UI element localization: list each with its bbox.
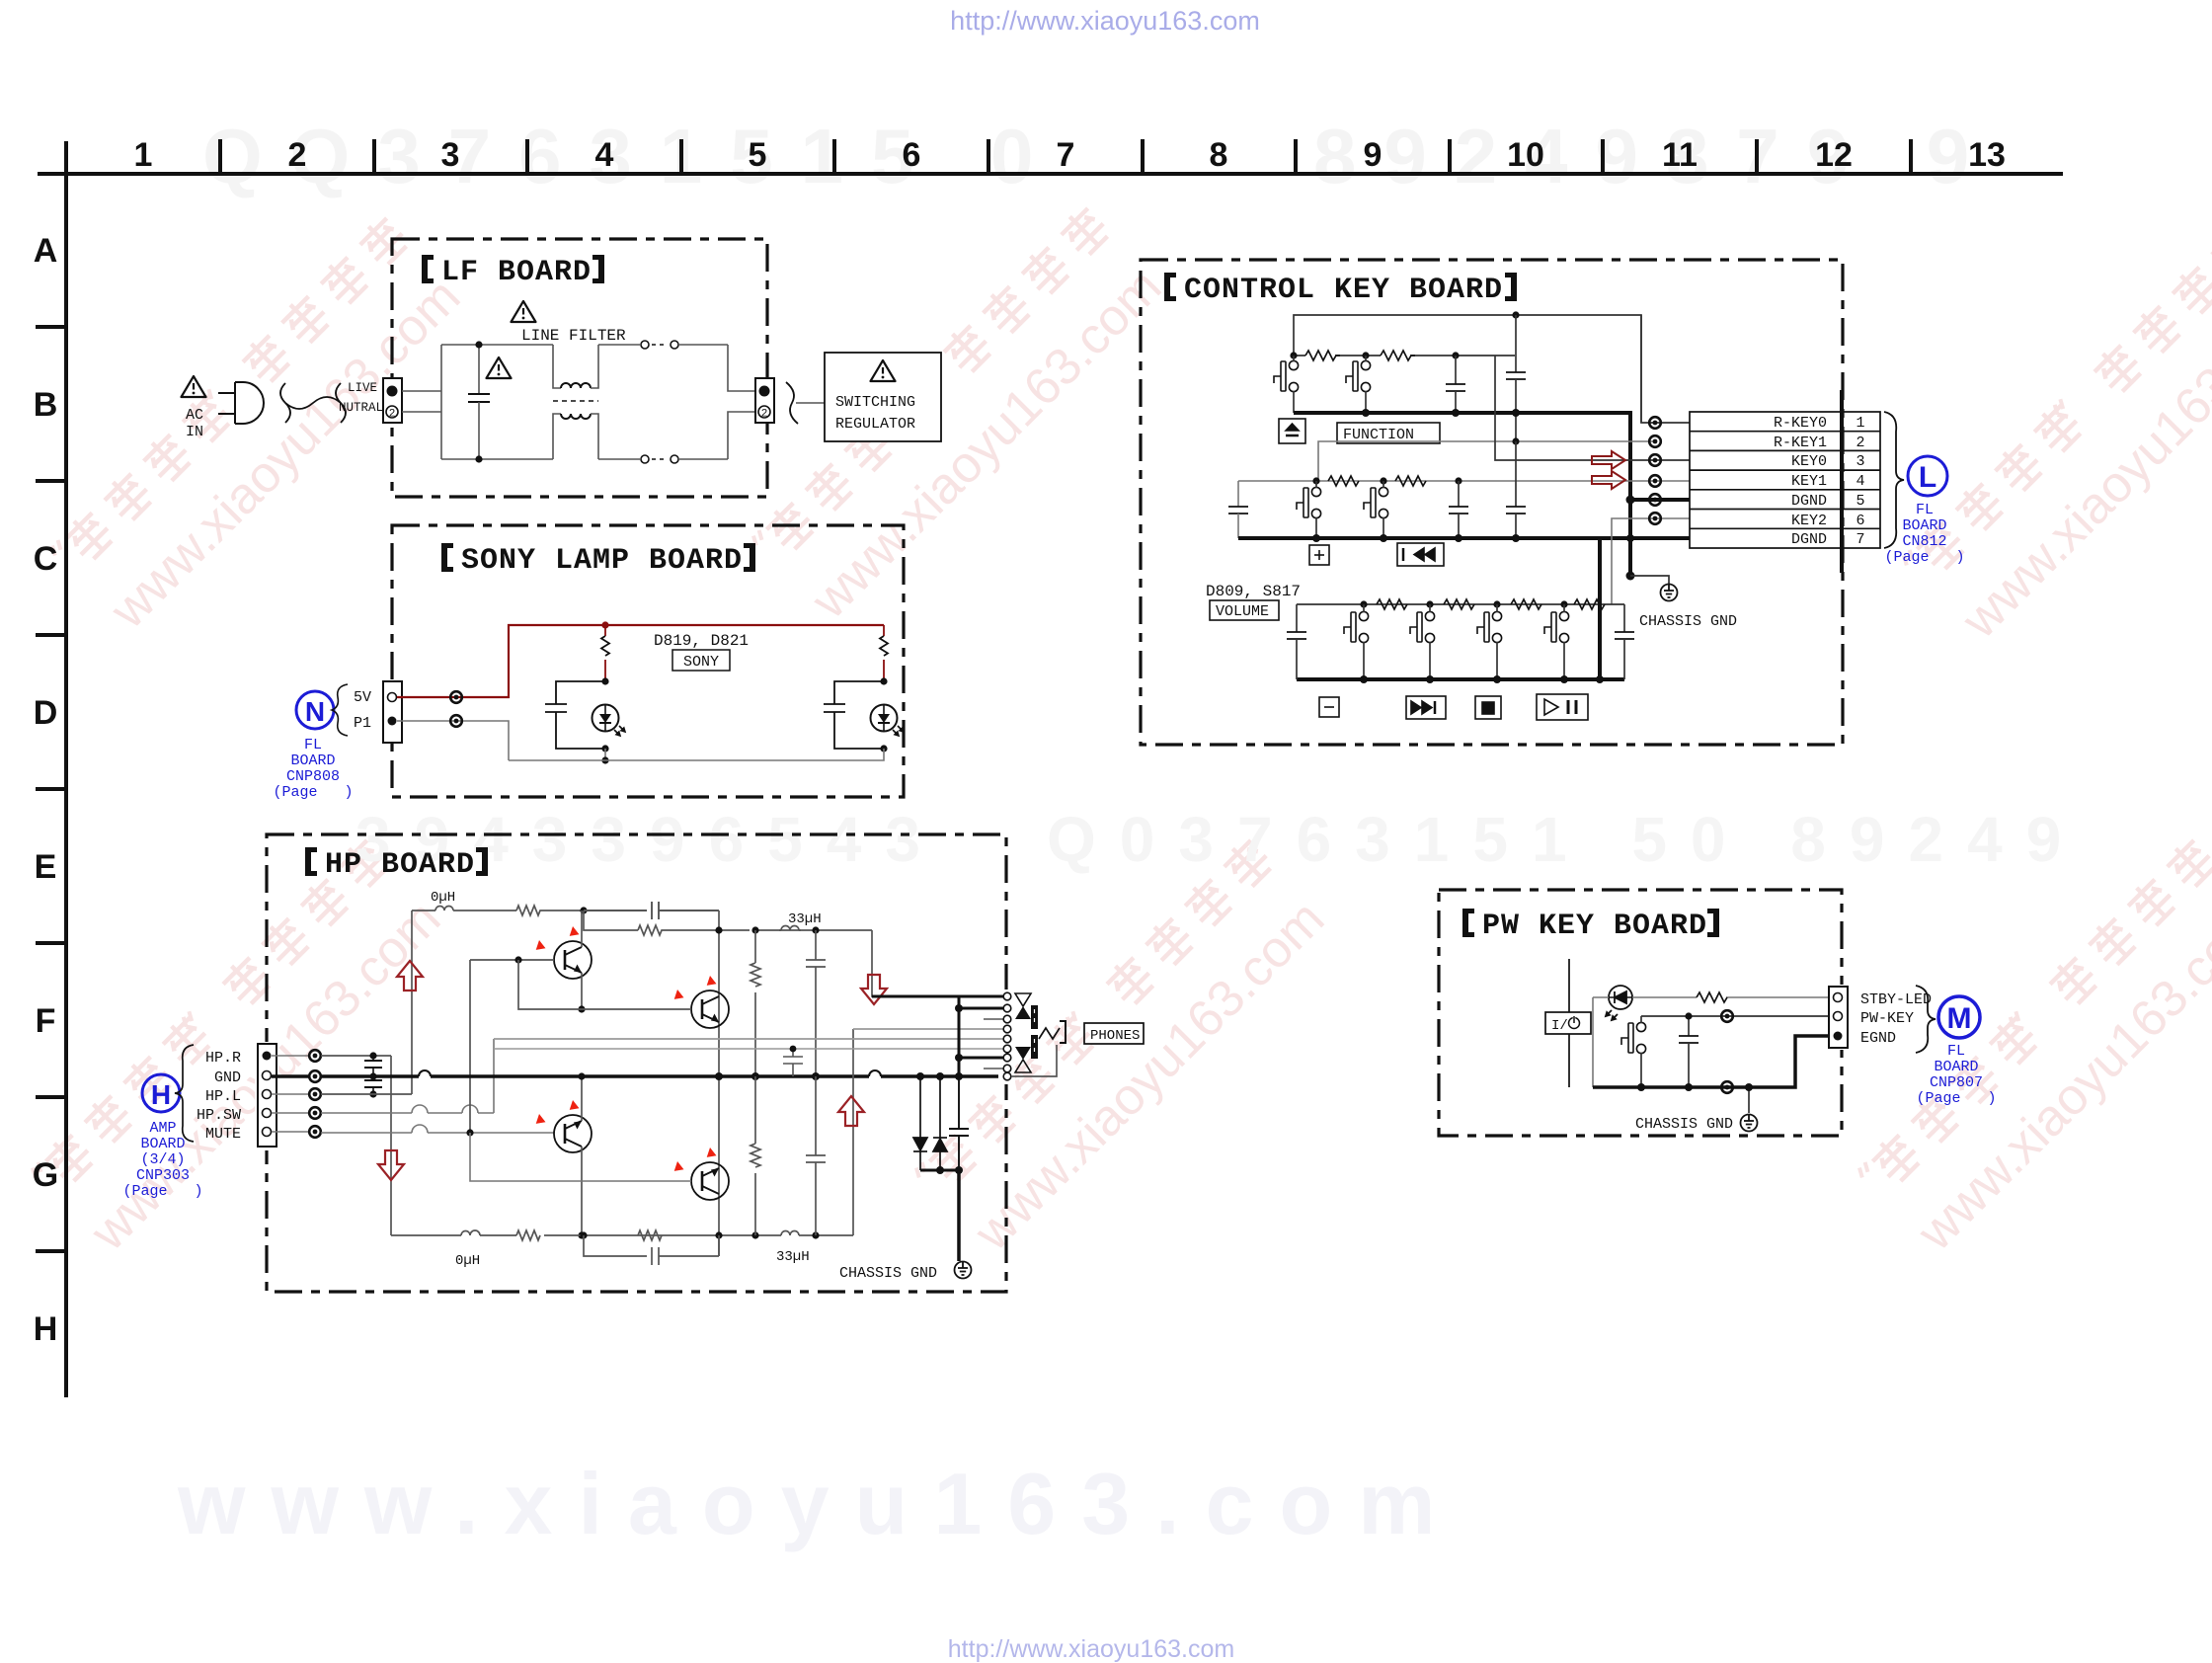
- wire neutral: [402, 411, 441, 413]
- jack tip spring: [1039, 1028, 1060, 1039]
- Q1 red mark: [533, 940, 547, 954]
- + key icon: [1309, 545, 1329, 565]
- chassis drop (thick): [1626, 572, 1635, 581]
- svg-text:(Page ): (Page ): [1916, 1090, 1996, 1107]
- eject key icon: [1279, 419, 1305, 443]
- volume bus junction dots: [1360, 675, 1368, 683]
- chassis gnd stub: [1630, 576, 1669, 584]
- STBY-LED wire: [1593, 996, 1834, 998]
- svg-text:33µH: 33µH: [776, 1249, 810, 1265]
- detect cap: [783, 1049, 803, 1076]
- DGND5 wire (thick): [1630, 498, 1690, 502]
- ruler tick marks (top): [220, 139, 1911, 174]
- svg-text:2: 2: [389, 409, 396, 421]
- svg-text:89249879 9: 89249879 9: [1313, 113, 1997, 199]
- svg-text:HP.SW: HP.SW: [197, 1107, 241, 1124]
- svg-text:http://www.xiaoyu163.com: http://www.xiaoyu163.com: [948, 1635, 1234, 1663]
- junction dot LED2 top: [880, 677, 887, 684]
- svg-text:(Page ): (Page ): [273, 784, 353, 801]
- svg-text:REGULATOR: REGULATOR: [835, 416, 915, 433]
- svg-text:LF BOARD: LF BOARD: [441, 256, 592, 289]
- svg-text:I/: I/: [1551, 1018, 1568, 1034]
- svg-text:2: 2: [288, 136, 307, 174]
- resistor R stby: [1697, 992, 1727, 1002]
- SONY LAMP BOARD title: [441, 543, 755, 578]
- svg-text:D809, S817: D809, S817: [1206, 583, 1301, 600]
- wire beads at connector: [1649, 417, 1661, 429]
- 5V red wire: [397, 625, 884, 697]
- filter output mesh with plug-break: [598, 345, 755, 459]
- capacitor C1 rowA: [1446, 356, 1465, 413]
- volume wire junction dots: [1360, 600, 1367, 607]
- resistor R2 bottom rail: [638, 1230, 662, 1240]
- connector L circle: [1908, 456, 1947, 496]
- svg-text:A: A: [34, 232, 58, 270]
- wire live: [402, 390, 441, 392]
- earth symbol HP board: [955, 1262, 972, 1279]
- SONY boxed label: [672, 650, 730, 671]
- svg-text:C: C: [34, 540, 58, 578]
- phones jack feed (thick): [872, 995, 1003, 998]
- LED D821: [871, 705, 905, 737]
- svg-text:E: E: [35, 848, 57, 886]
- signal arrow KEY0: [1592, 451, 1625, 469]
- HP BOARD dashed enclosure: [267, 834, 1006, 1292]
- CONTROL KEY BOARD title: [1164, 273, 1517, 307]
- bus A junction dots: [1362, 409, 1370, 417]
- ruler row letters A-H: [33, 232, 58, 1348]
- svg-text:www.xiaoyu163.com: www.xiaoyu163.com: [177, 1455, 1461, 1552]
- flow arrow down (R ch): [378, 1150, 404, 1180]
- volume bus to DGND (thick): [1598, 538, 1602, 679]
- KEY2 wire: [1612, 518, 1690, 604]
- LF BOARD dashed enclosure: [392, 239, 767, 497]
- svg-text:AC: AC: [186, 407, 203, 424]
- warning triangle above LINE FILTER: [512, 301, 536, 322]
- resistor R (rowB left): [1328, 476, 1359, 486]
- Q4 red mark 2: [704, 1148, 718, 1161]
- protection diode D1: [913, 1076, 927, 1170]
- connector CNP808: [383, 681, 402, 743]
- svg-text:KEY0: KEY0: [1791, 453, 1827, 470]
- resistor R (rowA right): [1381, 351, 1415, 360]
- brace at CN812: [1884, 412, 1904, 548]
- FL BOARD CN812 label: [1884, 502, 1964, 566]
- svg-text:http://www.xiaoyu163.com: http://www.xiaoyu163.com: [950, 6, 1260, 36]
- svg-text:(Page ): (Page ): [122, 1183, 202, 1200]
- Q3 emitter lead up: [581, 1076, 583, 1121]
- Q1 emitter lead: [581, 973, 583, 1009]
- resistor R (rowA left): [1305, 351, 1340, 360]
- svg-text:5: 5: [749, 136, 767, 174]
- common mode choke L: [553, 345, 598, 459]
- resistor R (volume 4): [1574, 599, 1605, 609]
- svg-text:DGND: DGND: [1791, 531, 1827, 548]
- resistor R bottom rail: [516, 1230, 540, 1240]
- svg-text:CNP807: CNP807: [1930, 1074, 1983, 1091]
- connector (LF out): [755, 378, 774, 423]
- brace at CNP807: [1916, 986, 1935, 1053]
- svg-text:7: 7: [1057, 136, 1075, 174]
- AMP BOARD CNP303 label: [122, 1120, 202, 1200]
- power key I/O boxed label: [1545, 1012, 1591, 1034]
- bead on 5V wire: [450, 691, 462, 703]
- inductor 33uH top: [779, 926, 801, 931]
- capacitor C rowB left: [1228, 481, 1248, 538]
- svg-text:5: 5: [1856, 493, 1864, 510]
- switch row B wire (KEY1): [1238, 480, 1690, 482]
- Q2 red mark: [671, 990, 685, 1003]
- svg-text:CNP808: CNP808: [286, 768, 340, 785]
- svg-text:D: D: [34, 694, 58, 732]
- jack contacts: [1003, 992, 1011, 1080]
- svg-text:BOARD: BOARD: [1902, 517, 1946, 534]
- jack switch lower: [1015, 1047, 1031, 1060]
- Q2 base wire: [518, 960, 691, 1009]
- Q2 red mark 2: [704, 976, 718, 990]
- LF BOARD title: [422, 255, 604, 289]
- svg-text:CONTROL KEY BOARD: CONTROL KEY BOARD: [1184, 274, 1503, 307]
- FUNCTION boxed label: [1337, 423, 1440, 443]
- svg-text:DGND: DGND: [1791, 493, 1827, 510]
- transistor Q3: [554, 1115, 592, 1152]
- svg-text:NUTRAL: NUTRAL: [339, 401, 383, 415]
- warning triangle inside filter: [487, 357, 512, 378]
- connector N circle: [296, 691, 334, 729]
- junction dot on C2 line row2: [1512, 437, 1519, 444]
- svg-text:N: N: [305, 696, 325, 727]
- svg-text:13: 13: [1968, 136, 2006, 174]
- FL BOARD CNP807 label: [1916, 1043, 1996, 1107]
- bead on P1 wire: [450, 715, 462, 727]
- svg-text:0µH: 0µH: [431, 890, 455, 906]
- pin stub wires: [272, 1056, 310, 1132]
- svg-text:P1: P1: [354, 715, 371, 732]
- return drop left: [604, 749, 606, 760]
- phones sw wire: [494, 1048, 1003, 1050]
- connector CNP807: [1829, 987, 1848, 1048]
- svg-text:33µH: 33µH: [788, 911, 822, 927]
- signal arrow KEY1: [1592, 471, 1625, 489]
- capacitor C volume left: [1287, 604, 1306, 679]
- jack pin3 stub: [984, 1018, 1003, 1020]
- junction dot bottom of C: [475, 455, 482, 462]
- line filter input mesh: [441, 345, 553, 459]
- svg-text:3: 3: [1856, 453, 1864, 470]
- bead on EGND: [1721, 1081, 1733, 1093]
- svg-text:AMP: AMP: [149, 1120, 176, 1137]
- watermark layer: [47, 213, 474, 640]
- svg-text:CHASSIS GND: CHASSIS GND: [839, 1265, 946, 1282]
- Q1 base wire: [470, 959, 554, 961]
- junction dot LED2 bottom: [880, 745, 887, 752]
- bead on PW-KEY: [1721, 1010, 1733, 1022]
- MUTE wire: [321, 1132, 554, 1134]
- svg-text:10: 10: [1507, 136, 1544, 174]
- svg-text:CN812: CN812: [1902, 533, 1946, 550]
- svg-text:4: 4: [595, 136, 614, 174]
- junction dot LED bottom: [601, 745, 608, 752]
- series capacitor top rail: [584, 902, 719, 919]
- svg-text:KEY1: KEY1: [1791, 473, 1827, 490]
- svg-text:CNP303: CNP303: [136, 1167, 190, 1184]
- svg-text:G: G: [33, 1156, 58, 1194]
- ruler: top horizontal scale line: [38, 172, 2063, 176]
- push switch S (eject): [1274, 360, 1299, 391]
- P1 return wire: [397, 721, 509, 760]
- transistor Q1: [554, 941, 592, 979]
- push switch S (+): [1297, 487, 1321, 517]
- connector board-edge line (thick): [1840, 390, 1844, 573]
- inductor 0uH top: [412, 907, 516, 911]
- jack pin8 stub: [984, 1068, 1003, 1069]
- resistor R (volume 3): [1511, 599, 1541, 609]
- power key actuator line: [1568, 959, 1570, 1087]
- volume ground bus (thick): [1297, 677, 1624, 681]
- wire beads: [309, 1050, 321, 1062]
- svg-text:5V: 5V: [354, 689, 371, 706]
- svg-text:D819, D821: D819, D821: [654, 632, 749, 650]
- svg-text:3: 3: [441, 136, 460, 174]
- flow arrow up (L ch): [397, 961, 423, 990]
- ground return wire: [509, 749, 884, 760]
- HP.L wire to driver: [321, 911, 412, 1094]
- bias resistor vertical: [750, 930, 760, 1076]
- capacitor C rowB mid: [1449, 481, 1468, 538]
- Q3 base wire: [466, 1129, 473, 1136]
- connector M circle: [1938, 996, 1980, 1038]
- capacitor C (across line): [468, 345, 490, 459]
- svg-text:GND: GND: [214, 1069, 241, 1086]
- PHONES boxed label: [1084, 1023, 1144, 1044]
- push switch S (volume 3): [1477, 611, 1502, 642]
- SWITCHING REGULATOR block: [825, 353, 941, 441]
- HP.R wire to output stage: [321, 1056, 391, 1235]
- svg-text:12: 12: [1815, 136, 1853, 174]
- connector CNP (LF in): [383, 378, 402, 423]
- svg-text:FL: FL: [1916, 502, 1934, 518]
- svg-text:CHASSIS GND: CHASSIS GND: [1639, 613, 1737, 630]
- HP.SW wire: [321, 1039, 494, 1113]
- svg-text:L: L: [1919, 461, 1936, 494]
- Q4 base wire: [470, 1133, 691, 1181]
- push switch S (function): [1346, 360, 1371, 391]
- svg-text:BOARD: BOARD: [1934, 1059, 1978, 1075]
- phones L signal wire: [853, 1028, 1003, 1030]
- svg-text:R-KEY1: R-KEY1: [1774, 435, 1827, 451]
- junction dot top wire: [1512, 311, 1519, 318]
- jack barrel: [1060, 1021, 1066, 1043]
- break contacts bottom: [641, 455, 649, 463]
- jack switch upper: [1015, 993, 1031, 1006]
- jack contact bar lower: [1031, 1035, 1038, 1059]
- svg-text:EGND: EGND: [1860, 1030, 1896, 1047]
- junction dot 5V rail: [601, 621, 608, 628]
- capacitor (right lamp): [824, 681, 884, 749]
- svg-text:QQ37631515 0: QQ37631515 0: [202, 113, 1061, 199]
- brace at H: [175, 1045, 194, 1142]
- capacitor C2 lower plates: [1506, 441, 1526, 538]
- jack sleeve return: [1011, 1045, 1057, 1076]
- svg-text:MUTE: MUTE: [205, 1126, 241, 1143]
- connector CNP303: [258, 1044, 276, 1147]
- earth symbol control board: [1661, 585, 1678, 601]
- capacitor C volume right: [1615, 604, 1634, 679]
- svg-text:2: 2: [761, 409, 768, 421]
- svg-text:SWITCHING: SWITCHING: [835, 394, 915, 411]
- svg-text:1: 1: [1856, 415, 1864, 432]
- svg-text:LINE FILTER: LINE FILTER: [521, 327, 626, 345]
- svg-text:11: 11: [1662, 136, 1698, 174]
- svg-text:LIVE: LIVE: [348, 381, 377, 395]
- svg-text:FL: FL: [304, 737, 322, 753]
- svg-text:6: 6: [903, 136, 921, 174]
- rowB junction dots: [1312, 477, 1319, 484]
- svg-text:HP BOARD: HP BOARD: [325, 848, 475, 882]
- push switch S (power): [1621, 1022, 1646, 1053]
- output rail lower: [391, 1029, 853, 1235]
- debounce capacitor: [1679, 1016, 1698, 1087]
- wire to regulator: [796, 402, 825, 404]
- PW-KEY wire: [1641, 1015, 1834, 1017]
- standby LED: [1606, 986, 1632, 1020]
- Q1 base feed from HP.SW: [469, 960, 471, 1133]
- Q3 red mark: [533, 1114, 547, 1128]
- AC plug symbol: [218, 382, 264, 424]
- push switch S (volume 2): [1410, 611, 1435, 642]
- Q3 red mark 2: [567, 1100, 581, 1114]
- ruler column numbers 1-13: [134, 136, 2006, 174]
- EGND bus (thick): [1593, 1036, 1834, 1087]
- CONTROL KEY BOARD dashed enclosure: [1141, 260, 1843, 745]
- R-KEY0 wire from top: [1641, 315, 1690, 423]
- jack pin7 stub: [959, 1057, 1003, 1060]
- svg-text:1: 1: [134, 136, 153, 174]
- driver rail: [584, 911, 965, 996]
- svg-text:9: 9: [1364, 136, 1382, 174]
- PW KEY BOARD title: [1462, 909, 1719, 943]
- resistor R (right lamp): [880, 625, 888, 681]
- earth symbol PW board: [1741, 1115, 1758, 1132]
- ruler tick marks (left): [36, 327, 66, 1251]
- jack contact bar upper: [1031, 1005, 1038, 1029]
- phones detect wire: [494, 1038, 1003, 1040]
- svg-text:R-KEY0: R-KEY0: [1774, 415, 1827, 432]
- filter capacitor vertical lower: [806, 1076, 826, 1235]
- push switch S (volume 1): [1344, 611, 1369, 642]
- stop key icon: [1475, 696, 1501, 719]
- transistor Q4: [691, 1162, 729, 1200]
- switch row A wire: [1294, 355, 1515, 356]
- svg-text:PHONES: PHONES: [1090, 1028, 1140, 1044]
- connector H circle: [142, 1074, 180, 1112]
- break contacts top: [641, 341, 649, 349]
- VOLUME boxed label: [1210, 600, 1279, 620]
- push switch S (prev): [1364, 487, 1388, 517]
- svg-text:4: 4: [1856, 473, 1864, 490]
- svg-text:M: M: [1947, 1002, 1972, 1035]
- GND bus junction dots: [715, 1072, 723, 1080]
- flow arrow up (feedback): [838, 1096, 864, 1126]
- hop on GND bus left: [419, 1070, 431, 1076]
- svg-text:BOARD: BOARD: [290, 752, 335, 769]
- ruler: left vertical scale line: [64, 141, 68, 1397]
- svg-text:FL: FL: [1947, 1043, 1965, 1060]
- ff key icon: [1406, 696, 1446, 719]
- R-KEY1 branch wire: [1318, 441, 1655, 481]
- feedback rail lower: [584, 1235, 719, 1265]
- resistor R top rail: [516, 906, 584, 915]
- flow arrow down (to phones R): [861, 975, 887, 1004]
- transistor Q2: [691, 990, 729, 1028]
- HP BOARD title: [305, 847, 488, 882]
- svg-text:H: H: [151, 1079, 171, 1110]
- protection diode D2: [933, 1076, 947, 1170]
- bias resistor vertical lower: [750, 1076, 760, 1235]
- svg-text:0µH: 0µH: [455, 1253, 480, 1269]
- Q1 collector lead: [581, 911, 583, 947]
- resistor R (rowB right): [1395, 476, 1426, 486]
- coupling capacitor pair at input: [364, 1056, 382, 1094]
- jack pin2 stub: [959, 1007, 1003, 1010]
- top bias wire: [1294, 315, 1641, 423]
- PW KEY BOARD dashed enclosure: [1439, 890, 1842, 1136]
- resistor R (volume 1): [1377, 599, 1407, 609]
- svg-text:SONY LAMP BOARD: SONY LAMP BOARD: [461, 544, 743, 578]
- FL BOARD CNP808 label: [273, 737, 353, 801]
- push switch S (volume 4): [1544, 611, 1569, 642]
- svg-text:Q03763151 50 89249: Q03763151 50 89249: [1047, 804, 2085, 875]
- LED return drop: [1592, 997, 1594, 1087]
- inductor 0uH bottom: [461, 1230, 480, 1235]
- filter capacitor vertical: [806, 930, 826, 1076]
- svg-text:F: F: [36, 1002, 56, 1040]
- chassis drop (thick): [957, 1170, 961, 1261]
- AC cord squiggle: [280, 383, 346, 423]
- brace at N: [332, 684, 348, 736]
- SONY LAMP BOARD dashed enclosure: [392, 525, 904, 797]
- svg-text:(3/4): (3/4): [140, 1151, 185, 1168]
- svg-text:KEY2: KEY2: [1791, 513, 1827, 529]
- inductor 33uH bottom: [781, 1231, 799, 1236]
- brace to switching regulator: [786, 382, 798, 424]
- svg-text:(Page ): (Page ): [1884, 549, 1964, 566]
- volume row wire: [1297, 603, 1624, 605]
- resistor R (left lamp): [601, 625, 609, 681]
- Q4 red mark: [671, 1161, 685, 1175]
- svg-text:CHASSIS GND: CHASSIS GND: [1635, 1116, 1733, 1133]
- svg-text:H: H: [34, 1310, 58, 1348]
- svg-text:VOLUME: VOLUME: [1216, 603, 1269, 620]
- svg-text:PW-KEY: PW-KEY: [1860, 1010, 1914, 1027]
- snubber capacitor: [949, 1076, 969, 1170]
- junction dot top of C: [475, 341, 482, 348]
- junction dots rowA: [1290, 352, 1297, 358]
- svg-text:8: 8: [1210, 136, 1228, 174]
- play/pause key icon: [1537, 694, 1588, 720]
- svg-text:HP.L: HP.L: [205, 1088, 241, 1105]
- jack common bus: [958, 996, 961, 1076]
- svg-text:6: 6: [1856, 513, 1864, 529]
- svg-text:BOARD: BOARD: [140, 1136, 185, 1152]
- capacitor (left lamp): [545, 681, 605, 749]
- svg-text:SONY: SONY: [683, 654, 719, 671]
- connector table CN812: [1690, 412, 1880, 548]
- resistor R (volume 2): [1444, 599, 1474, 609]
- svg-text:B: B: [34, 386, 58, 424]
- GND bus (thick): [321, 1074, 998, 1078]
- minus key icon: [1319, 697, 1339, 717]
